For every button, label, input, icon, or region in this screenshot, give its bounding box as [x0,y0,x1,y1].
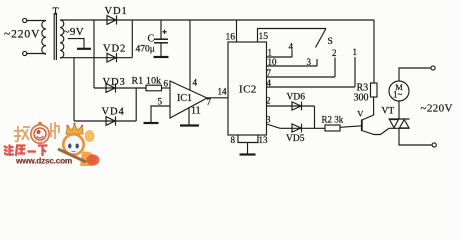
diode VD1 [107,15,117,24]
svg-text:11: 11 [191,106,201,117]
switch contact 2 [334,58,336,78]
svg-text:300: 300 [354,93,369,104]
terminal bottom-right [432,143,436,147]
wire IC1 pin11 [188,108,190,125]
svg-text:7: 7 [207,97,212,107]
svg-text:R2 3k: R2 3k [322,115,344,125]
wire secondary bottom to VD2 [60,57,132,59]
svg-text:VD1: VD1 [105,6,128,17]
watermark glyph zhao [14,126,30,141]
diode VD6 [292,102,302,111]
terminal input bottom-left [23,51,46,55]
diode VD4 [106,116,116,125]
IC U2 [228,42,267,135]
ground capacitor [154,56,169,58]
watermark mascot mouth [72,150,76,153]
wire IC2 pin4 [267,86,356,88]
svg-text:~220V: ~220V [4,29,40,41]
switch contact 3 [316,59,318,66]
watermark magnifier emblem [31,122,49,144]
svg-text:16: 16 [226,33,236,43]
svg-text:VD3: VD3 [103,77,126,88]
transformer T core [54,13,56,60]
transistor V base bar [361,120,363,132]
wire +V top rail [60,19,374,21]
svg-text:2: 2 [266,96,271,106]
resistor R3 [371,83,378,97]
svg-text:1~: 1~ [393,90,403,100]
op-amp IC1 [170,81,207,118]
svg-text:13: 13 [259,135,269,145]
svg-text:C: C [148,34,155,45]
triac VT [389,119,410,128]
svg-text:IC2: IC2 [239,84,257,96]
wire top tap down to VD3 [93,20,95,88]
svg-text:T: T [53,7,59,18]
watermark logo [4,122,100,166]
ground IC1 pin5 [144,122,159,124]
wire VD3 row [94,87,146,89]
diode VD2 [107,53,117,62]
wire motor to top terminal [399,68,431,81]
wire IC2 pin15 to switch [258,29,327,43]
svg-text:S: S [328,37,333,47]
capacitor C1 stem from rail [160,20,162,39]
wire rail drop to R3 [373,20,375,83]
wire VD4 cathode up to VD3 row [135,88,137,121]
wire R3 to transistor collector [362,97,374,120]
polarity plus sign [162,30,166,34]
wire triac to bottom terminal [399,128,432,145]
svg-text:www.dzsc.com: www.dzsc.com [15,157,72,166]
watermark glyph pian [51,122,60,139]
svg-text:VT: VT [382,107,395,117]
resistor R2 [325,125,340,131]
switch S arm [316,29,327,48]
watermark text weikuyixia [4,145,48,157]
svg-text:~9V: ~9V [64,26,85,38]
motor M [389,81,409,101]
diode VD5 [292,124,302,133]
wire IC2 pin16 from rail [236,20,238,42]
svg-text:2: 2 [332,48,337,58]
wire VD4 row [74,120,136,122]
wire motor to triac [398,101,400,119]
svg-text:VD2: VD2 [103,44,126,55]
watermark magnifier handle [58,149,86,162]
wire R2 to transistor base [340,126,362,128]
watermark mascot crown [66,124,83,134]
IC2 pin8 pin13 ground wires [238,135,258,154]
svg-text:VD5: VD5 [286,134,305,144]
svg-text:1: 1 [353,47,358,57]
ground IC2 [240,153,256,155]
wire IC2 pin2 [267,105,315,107]
wire VD2 cathode up to rail [131,20,133,58]
watermark mascot body [80,152,96,166]
transformer T primary winding [42,21,46,55]
wire bottom tap down to VD4 [73,58,75,121]
watermark mascot hand blob [85,130,95,142]
svg-text:8: 8 [231,135,236,145]
wire capacitor to ground [160,43,162,56]
switch contact 1 [354,57,356,87]
wire R1 to IC1 pin6 [162,87,171,89]
terminal input top-left [23,18,46,22]
svg-text:~220V: ~220V [421,103,453,115]
svg-text:R1 10k: R1 10k [132,76,162,87]
svg-text:3: 3 [307,57,312,67]
wire IC2 pin7 [267,76,336,78]
wire IC2 pin10 [267,65,318,67]
transistor V emitter to triac gate [362,129,389,135]
wire IC1 pin4 supply [189,20,191,90]
watermark mascot eyes [68,144,79,149]
switch contact 4 [291,50,293,57]
svg-text:3: 3 [266,115,271,125]
svg-text:4: 4 [193,78,198,88]
svg-text:15: 15 [259,32,269,42]
svg-text:14: 14 [218,87,228,97]
watermark mascot red patch [87,155,100,166]
diode VD3 [106,83,116,92]
wire IC2 pin1 [267,56,293,58]
svg-text:IC1: IC1 [177,93,192,104]
terminal top-right [431,66,435,70]
transformer T secondary winding [60,20,64,58]
svg-text:V: V [357,109,364,119]
svg-text:VD4: VD4 [102,107,125,118]
svg-text:1: 1 [268,48,273,58]
svg-text:6: 6 [164,79,169,89]
capacitor C 470u plates [154,39,168,43]
wire VD6 junction down [314,106,316,128]
ground secondary center tap [77,48,91,50]
svg-text:10: 10 [268,57,278,67]
svg-text:7: 7 [267,68,272,78]
wire center tap [68,39,84,48]
wire IC1 output pin7 to IC2 pin14 [207,97,228,99]
svg-text:VD6: VD6 [287,93,306,103]
wire IC2 pin3 [267,124,326,128]
watermark mascot head [63,134,83,154]
resistor R1 [146,85,162,91]
svg-text:4: 4 [289,42,294,52]
svg-text:5: 5 [158,97,163,107]
svg-text:4: 4 [267,78,272,88]
ground IC1 pin11 [180,124,199,126]
wire IC1 pin5 [151,106,170,122]
svg-text:470μ: 470μ [136,45,155,55]
